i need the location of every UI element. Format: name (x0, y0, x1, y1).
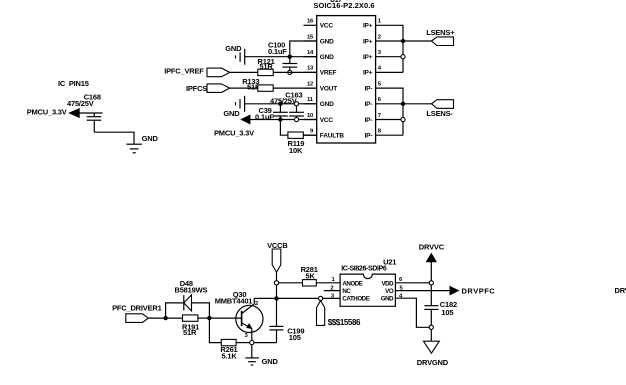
wire DRVVC down (430, 262, 432, 281)
wire to LSENS+ (403, 40, 432, 42)
ground (245, 357, 278, 366)
power flag DRVVC (419, 243, 445, 262)
port LSENS+ (426, 28, 455, 45)
pin 7 IP- (365, 113, 403, 124)
diode D48 (175, 279, 208, 311)
wire up to diode (166, 303, 184, 318)
wire node to R281 (279, 282, 303, 284)
resistor R133 (242, 77, 273, 92)
pin 10 stub (304, 113, 334, 124)
svg-text:LSENS-: LSENS- (426, 109, 453, 118)
ground (126, 134, 158, 153)
node VCCB/R281 (274, 281, 278, 285)
wire to DRVGND (430, 329, 432, 341)
port LSENS- (426, 100, 453, 118)
pin 4 IP+ (363, 66, 403, 77)
wire collector to cathode (254, 297, 340, 299)
pin 6 VDD wire (395, 277, 429, 283)
pin 6 IP- (365, 97, 403, 108)
capacitor C168 label (67, 93, 101, 109)
junction C163 top (294, 102, 298, 106)
svg-text:DRVG: DRVG (615, 286, 626, 295)
svg-text:GND: GND (320, 101, 334, 108)
wire to Q30 base (209, 317, 241, 319)
power flag VCCB (267, 241, 288, 272)
pin 12 stub (304, 81, 338, 92)
node VDD (429, 281, 433, 285)
net flag $$$15586 (317, 301, 362, 327)
wire collector up (253, 298, 255, 303)
svg-text:DRVVC: DRVVC (419, 243, 445, 252)
junction C39 top (278, 102, 282, 106)
wire emitter node to GND (251, 345, 253, 358)
port IPFCS (186, 84, 230, 93)
wire PMCU to R119 (280, 120, 288, 136)
svg-text:VDD: VDD (381, 280, 394, 287)
resistor R281 (301, 265, 318, 286)
svg-text:IP+: IP+ (363, 70, 373, 77)
wire down to collector net (276, 285, 278, 327)
capacitor C182 (424, 300, 457, 317)
node GND (429, 325, 433, 329)
svg-text:16: 16 (307, 19, 314, 25)
svg-text:GND: GND (142, 134, 159, 143)
port IPFC_VREF (164, 67, 230, 77)
svg-text:475/25V: 475/25V (270, 97, 297, 106)
junction C100 to VREF wire (288, 70, 292, 74)
svg-text:ANODE: ANODE (342, 280, 362, 287)
svg-text:475/25V: 475/25V (67, 99, 94, 108)
svg-text:VCC: VCC (320, 23, 334, 30)
junction pin2 bus (401, 39, 405, 43)
svg-text:B5819WS: B5819WS (175, 285, 208, 294)
wire C182 to GND node (430, 309, 432, 325)
svg-text:12: 12 (307, 81, 314, 87)
IC U21 (340, 258, 396, 307)
svg-text:IPFC_VREF: IPFC_VREF (164, 67, 204, 76)
svg-text:MMBT4401: MMBT4401 (215, 296, 253, 305)
svg-text:PFC_DRIVER1: PFC_DRIVER1 (112, 303, 162, 312)
svg-text:NC: NC (342, 288, 351, 295)
wire diode to node (192, 303, 210, 318)
svg-text:0.1uF: 0.1uF (255, 113, 274, 122)
transistor Q30 (215, 290, 263, 339)
capacitor C163 (270, 91, 304, 118)
wire C199 to emitter node (254, 342, 277, 344)
svg-text:VO: VO (385, 288, 394, 295)
port DRVPFC (450, 286, 495, 295)
pin 5 VO wire (395, 285, 450, 291)
wire R119 to pin9 (303, 134, 316, 136)
svg-text:GND: GND (320, 38, 334, 45)
svg-text:51R: 51R (183, 328, 197, 337)
pin 4 GND wire (395, 293, 429, 327)
ground GND (rotated, pin15 net) (225, 44, 244, 64)
wire R281 to pin1 ANODE (316, 282, 340, 284)
pin 1 IP+ (363, 19, 403, 73)
svg-text:IP-: IP- (365, 117, 373, 124)
IC U17 title (clipped at top) (313, 0, 374, 10)
pin 9 stub (304, 129, 345, 140)
power flag PMCU_3.3V (27, 108, 80, 118)
svg-text:VCC: VCC (320, 117, 334, 124)
svg-text:13: 13 (307, 66, 314, 72)
node $$$15586 (319, 296, 323, 300)
resistor R261 (220, 339, 251, 360)
svg-text:5K: 5K (306, 271, 316, 280)
junction (288, 55, 292, 59)
junction C39 bottom (278, 117, 282, 121)
svg-text:15: 15 (307, 34, 314, 40)
pin 3 IP+ (363, 50, 403, 61)
wire C168 to ground (94, 132, 134, 144)
pin 15 stub (304, 34, 335, 45)
power flag PMCU_3.3V (214, 115, 254, 138)
svg-text:IP+: IP+ (363, 54, 373, 61)
svg-text:IC-SI826-SDIP6: IC-SI826-SDIP6 (341, 266, 387, 273)
svg-text:IPFCS: IPFCS (186, 84, 207, 93)
resistor R119 (288, 132, 305, 155)
capacitor C39 (255, 104, 288, 122)
pin 16 stub (304, 19, 334, 30)
svg-text:PMCU_3.3V: PMCU_3.3V (214, 129, 254, 138)
wire down to R261 (209, 318, 221, 343)
wire IPFC_VREF to R121 (230, 71, 258, 73)
svg-text:$$$15586: $$$15586 (328, 318, 361, 327)
wire GND to pin11 (245, 103, 317, 105)
svg-text:IP-: IP- (365, 101, 373, 108)
svg-text:IP-: IP- (365, 85, 373, 92)
wire VDD node to C182 (430, 285, 432, 306)
svg-text:FAULTB: FAULTB (320, 133, 344, 140)
pin 2 IP+ (363, 34, 403, 45)
capacitor C168 (87, 113, 102, 132)
svg-text:GND: GND (223, 109, 240, 118)
svg-text:IP-: IP- (365, 133, 373, 140)
wire PFC_DRIVER1 to node (148, 317, 165, 319)
resistor R121 (258, 57, 275, 76)
junction pin3 bus (401, 55, 405, 59)
wire PMCU_3.3V to pin10 VCC (250, 119, 317, 121)
svg-text:SOIC16-P2.2X0.6: SOIC16-P2.2X0.6 (313, 1, 374, 10)
wire R133 to pin12 VOUT (273, 87, 317, 89)
svg-text:0.1uF: 0.1uF (268, 47, 287, 56)
svg-text:PMCU_3.3V: PMCU_3.3V (27, 108, 67, 117)
node R191/D48 left (163, 316, 167, 320)
svg-text:GND: GND (262, 357, 279, 366)
svg-text:DRVPFC: DRVPFC (462, 287, 496, 296)
svg-text:DRVGND: DRVGND (417, 358, 449, 367)
wire VCCB down (276, 272, 278, 281)
pin 11 stub (304, 97, 335, 108)
pin 13 stub (304, 66, 337, 77)
pin 2 NC stub (324, 286, 340, 292)
wire GND to pin14 (245, 56, 317, 58)
resistor R191 (166, 315, 210, 337)
node emitter (250, 341, 254, 345)
svg-text:14: 14 (307, 50, 314, 56)
svg-text:CATHODE: CATHODE (342, 296, 369, 303)
pin 5 IP- (365, 81, 403, 135)
wire IPFCS to R133 (230, 87, 258, 89)
svg-text:IC PIN15: IC PIN15 (58, 79, 89, 88)
svg-text:10K: 10K (289, 146, 303, 155)
capacitor C199 (269, 326, 304, 342)
port PFC_DRIVER1 (112, 303, 162, 322)
IC body (317, 16, 376, 143)
svg-text:LSENS+: LSENS+ (426, 28, 455, 37)
svg-text:IP+: IP+ (363, 23, 373, 30)
svg-text:GND: GND (381, 296, 394, 303)
svg-text:GND: GND (225, 44, 242, 53)
junction pin7 bus (401, 117, 405, 121)
wire R121 to pin13 VREF (273, 71, 317, 73)
wire pin15 GND jog (290, 41, 317, 64)
pin 14 stub (304, 50, 335, 61)
svg-text:VREF: VREF (320, 70, 337, 77)
capacitor C100 (268, 40, 297, 70)
svg-text:105: 105 (441, 308, 453, 317)
ground GND (rotated, pin11 net) (223, 96, 244, 118)
node R191 right (207, 316, 211, 320)
svg-text:5.1K: 5.1K (222, 351, 238, 360)
wire to LSENS- (403, 103, 432, 105)
svg-text:10: 10 (307, 113, 314, 119)
junction C163 bottom (294, 117, 298, 121)
pin 8 IP- (365, 129, 403, 140)
wire emitter down (251, 329, 253, 343)
junction collector crossing (274, 296, 278, 300)
svg-text:GND: GND (320, 54, 334, 61)
junction pin6 bus (401, 102, 405, 106)
svg-text:105: 105 (289, 333, 301, 342)
svg-text:IP+: IP+ (363, 38, 373, 45)
ground flag DRVGND (417, 341, 449, 367)
svg-text:VOUT: VOUT (320, 85, 337, 92)
wire PMCU_3.3V to C168 (79, 112, 102, 114)
